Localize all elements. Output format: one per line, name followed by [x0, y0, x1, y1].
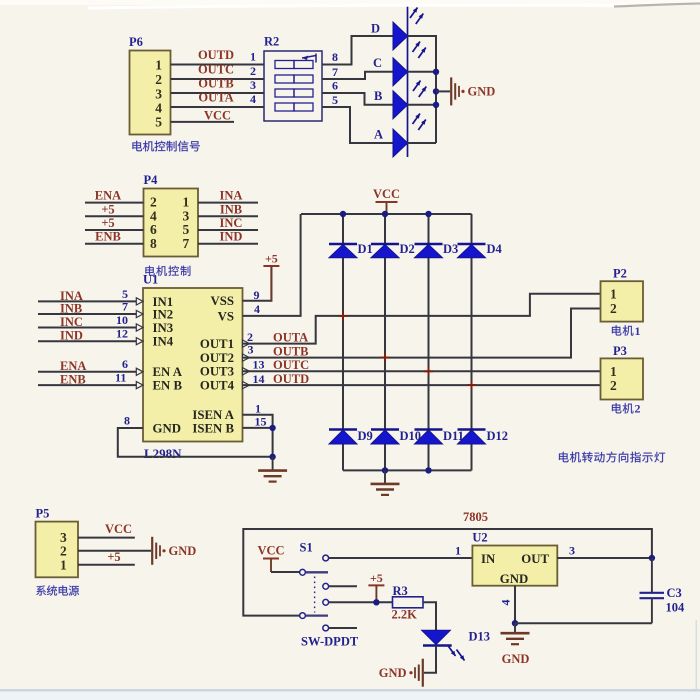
- svg-text:+5: +5: [265, 252, 278, 266]
- svg-text:3: 3: [569, 544, 575, 558]
- svg-text:15: 15: [255, 415, 267, 429]
- svg-text:R2: R2: [264, 35, 279, 49]
- net label OUTD: [198, 48, 234, 62]
- diode D11: [415, 429, 464, 444]
- label 系统电源 (system power): [36, 585, 79, 595]
- svg-text:GND: GND: [169, 544, 197, 558]
- svg-text:GND: GND: [153, 421, 181, 435]
- pin number 3 (R2 left): [250, 78, 256, 92]
- svg-text:ENA: ENA: [95, 189, 121, 203]
- svg-text:6: 6: [332, 79, 338, 93]
- svg-text:EN A: EN A: [153, 365, 183, 379]
- svg-text:7805: 7805: [463, 510, 488, 524]
- pin number 10: [116, 313, 128, 327]
- svg-text:2.2K: 2.2K: [392, 608, 418, 622]
- svg-text:OUTA: OUTA: [198, 91, 233, 105]
- svg-text:B: B: [374, 89, 382, 103]
- svg-text:1: 1: [635, 324, 641, 338]
- svg-text:7: 7: [122, 299, 128, 313]
- LED D: [371, 8, 423, 51]
- svg-text:OUTC: OUTC: [198, 63, 234, 77]
- LED D13: [422, 630, 490, 661]
- wire LED D cathode to bus: [408, 36, 437, 143]
- svg-text:+5: +5: [101, 216, 114, 230]
- svg-text:D3: D3: [443, 242, 458, 256]
- connector P2: [601, 267, 644, 322]
- pin number 1 (U2): [455, 544, 461, 558]
- svg-text:1: 1: [610, 287, 617, 302]
- page top highlight: [0, 0, 700, 8]
- junction (ISEN B): [269, 425, 275, 431]
- diode D9: [329, 429, 373, 444]
- wire OUT2 / net OUTB to P2-2: [243, 309, 601, 358]
- power ground GND (D13): [379, 659, 423, 687]
- power VCC (bridge): [373, 187, 400, 214]
- svg-text:D12: D12: [487, 429, 509, 443]
- pin number 8 (R2 right): [332, 50, 338, 64]
- pin number 6 (R2 right): [332, 79, 338, 93]
- diode D4: [458, 242, 503, 258]
- svg-text:S1: S1: [300, 541, 313, 555]
- svg-text:6: 6: [122, 357, 128, 371]
- LED C: [373, 42, 426, 86]
- svg-text:U1: U1: [143, 273, 158, 287]
- net label OUTD (U1): [273, 372, 309, 386]
- wire diode column 3: [428, 214, 430, 470]
- net label INC (P4): [220, 216, 243, 230]
- junction (rail/col2): [382, 211, 388, 217]
- label S1: [300, 541, 313, 555]
- svg-text:D13: D13: [469, 630, 491, 644]
- svg-text:GND: GND: [502, 652, 530, 666]
- wire P6-1 to R2-1: [171, 64, 265, 66]
- wire P6-4 to R2-4: [171, 106, 265, 108]
- wire throw1b stub: [329, 585, 357, 587]
- connector P3: [601, 344, 644, 400]
- svg-text:C: C: [373, 56, 382, 70]
- svg-text:4: 4: [250, 92, 256, 106]
- wire diode column 1: [342, 214, 344, 470]
- wire OUT1 / net OUTA to P2-1: [243, 294, 601, 344]
- svg-text:10: 10: [116, 313, 128, 327]
- diode D2: [371, 242, 415, 258]
- power +5 (VSS): [263, 252, 279, 301]
- wire ISEN B pin15: [243, 427, 273, 429]
- svg-text:VCC: VCC: [257, 544, 284, 558]
- svg-text:5: 5: [332, 93, 338, 107]
- input triangle IN1: [136, 298, 143, 305]
- svg-text:1: 1: [183, 194, 190, 209]
- svg-text:4: 4: [150, 208, 157, 223]
- net label OUTB: [198, 77, 233, 91]
- svg-text:OUTB: OUTB: [273, 344, 308, 358]
- wire ENA to P4-2: [85, 202, 144, 204]
- net label OUTA (U1): [273, 330, 308, 344]
- svg-text:2: 2: [610, 378, 617, 393]
- svg-text:VCC: VCC: [105, 522, 132, 536]
- svg-text:SW-DPDT: SW-DPDT: [301, 635, 359, 649]
- pin number 14: [253, 372, 265, 386]
- svg-text:VSS: VSS: [211, 294, 234, 308]
- wire feedback loop (OUT to switch pole2): [243, 529, 652, 616]
- svg-text:OUTB: OUTB: [198, 77, 233, 91]
- wire R3 to D13: [423, 602, 436, 630]
- pin number 1 (ISEN A): [255, 402, 261, 416]
- diode D10: [371, 429, 421, 444]
- net label ENA (P4): [95, 189, 121, 203]
- svg-text:INB: INB: [60, 301, 82, 315]
- svg-text:IN: IN: [481, 552, 496, 566]
- wire R2-5 to LED A: [322, 107, 393, 143]
- svg-text:P4: P4: [144, 173, 159, 187]
- svg-text:OUT2: OUT2: [200, 351, 234, 365]
- svg-text:A: A: [374, 128, 383, 142]
- pin number 1 (R2 left): [250, 50, 256, 64]
- svg-text:ENB: ENB: [95, 230, 121, 244]
- label 电机控制信号 (motor control signal): [132, 141, 199, 152]
- svg-text:3: 3: [250, 78, 256, 92]
- svg-text:OUTD: OUTD: [273, 372, 309, 386]
- svg-text:14: 14: [253, 372, 265, 386]
- wire P4-5 INC: [198, 229, 258, 231]
- net label ENB (P4): [95, 230, 121, 244]
- pin number 4: [254, 302, 260, 316]
- ground (U2): [501, 623, 530, 644]
- wire IND to IN4: [38, 340, 137, 342]
- net label OUTC (U1): [273, 358, 309, 372]
- svg-text:P5: P5: [36, 507, 50, 521]
- svg-text:4: 4: [499, 600, 513, 606]
- wire VS pin4 to VCC rail: [243, 214, 301, 316]
- wire throw2b stub: [329, 627, 357, 629]
- svg-text:R3: R3: [393, 584, 408, 598]
- connector P4: [144, 173, 199, 257]
- wire throw2a to R3: [329, 601, 393, 603]
- pin number 13: [253, 358, 265, 372]
- svg-text:OUTC: OUTC: [273, 358, 309, 372]
- svg-text:8: 8: [124, 413, 130, 427]
- diode D12: [458, 429, 509, 444]
- wire OUT3 / net OUTC to P3-1: [243, 370, 601, 372]
- label 电机2 (motor 2): [612, 402, 641, 416]
- svg-text:INB: INB: [220, 202, 242, 216]
- wire LED B cathode to bus: [408, 104, 437, 106]
- net label VCC (P6 pin5): [204, 109, 231, 123]
- net label IND (U1): [60, 329, 83, 343]
- svg-text:D9: D9: [358, 429, 373, 443]
- junction cross (col4/OUTD): [467, 381, 476, 390]
- junction cross (col2/OUTB): [381, 353, 390, 362]
- svg-text:VCC: VCC: [204, 109, 231, 123]
- IC U2 7805: [472, 531, 557, 586]
- wire INB to IN2: [38, 313, 137, 315]
- svg-text:3: 3: [248, 343, 254, 357]
- wire VSS pin9 to +5: [243, 266, 272, 301]
- svg-text:3: 3: [155, 87, 162, 102]
- svg-text:ISEN A: ISEN A: [192, 408, 234, 422]
- svg-text:IND: IND: [220, 230, 243, 244]
- junction (bus / GND wire): [433, 88, 439, 94]
- svg-text:P3: P3: [613, 344, 627, 358]
- pin number 4 (R2 left): [250, 92, 256, 106]
- wire +5 to P4-4: [85, 215, 144, 217]
- pin number 7: [122, 299, 128, 313]
- wire U2 OUT pin3: [557, 557, 652, 559]
- junction cross (col1/OUTA): [339, 312, 348, 321]
- wire bottom (pin4 to C3): [515, 622, 652, 624]
- junction cross (col3/OUTC): [424, 367, 433, 376]
- net label INC (U1): [60, 315, 83, 329]
- pin number 11: [115, 371, 126, 385]
- wire OUT4 / net OUTD to P3-2: [243, 384, 601, 386]
- wire bus to GND: [436, 90, 450, 92]
- LED B: [374, 81, 426, 119]
- page bottom strip: [0, 620, 700, 700]
- svg-text:1: 1: [610, 364, 617, 379]
- net label INB (U1): [60, 301, 82, 315]
- LED cathode line (shared vertical): [407, 6, 409, 157]
- input triangle IN4: [136, 338, 143, 345]
- resistor R3: [392, 584, 424, 622]
- svg-text:8: 8: [150, 236, 157, 251]
- label 7805: [463, 510, 488, 524]
- svg-text:IN3: IN3: [153, 321, 174, 335]
- svg-text:2: 2: [150, 194, 157, 209]
- svg-text:OUT3: OUT3: [200, 365, 234, 379]
- wire throw1a to U2 IN: [329, 557, 473, 559]
- svg-text:2: 2: [155, 72, 162, 87]
- wire P5-1 +5: [78, 564, 135, 566]
- svg-text:D2: D2: [400, 242, 415, 256]
- wire diode column 4: [471, 214, 473, 470]
- svg-text:13: 13: [253, 358, 265, 372]
- label L298N: [144, 446, 182, 461]
- junction (bus / LED C): [433, 69, 439, 75]
- pin number 2 (R2 left): [250, 64, 256, 78]
- net label OUTB (U1): [273, 344, 308, 358]
- switch S1 SW-DPDT: [300, 555, 329, 631]
- net label ENB (U1): [60, 373, 86, 387]
- junction (+5/R3 wire): [373, 599, 379, 605]
- svg-text:+5: +5: [370, 571, 383, 585]
- svg-text:+5: +5: [107, 550, 120, 564]
- pin number 9: [254, 288, 260, 302]
- wire P4-7 IND: [198, 243, 258, 245]
- junction (rail/col3): [425, 211, 431, 217]
- pin number 2: [247, 330, 253, 344]
- junction (GND pin4/bottom wire): [512, 620, 518, 626]
- connector P6: [129, 35, 171, 135]
- wire R2-8 to LED D: [322, 36, 393, 65]
- svg-text:ENB: ENB: [60, 373, 86, 387]
- wire P5-2 to GND: [78, 550, 151, 552]
- svg-text:IN4: IN4: [153, 335, 174, 349]
- svg-text:5: 5: [155, 115, 162, 130]
- svg-text:OUTD: OUTD: [198, 48, 234, 62]
- wire GND pin8: [118, 428, 273, 457]
- svg-text:2: 2: [635, 402, 641, 416]
- svg-text:VCC: VCC: [373, 187, 400, 201]
- svg-text:1: 1: [255, 402, 261, 416]
- svg-text:GND: GND: [500, 572, 528, 586]
- svg-text:C3: C3: [667, 586, 682, 600]
- pin number 7 (R2 right): [332, 65, 338, 79]
- resistor network R2: [264, 35, 322, 122]
- svg-text:11: 11: [115, 371, 126, 385]
- wire LED C cathode to bus: [408, 71, 437, 73]
- pin number 12: [116, 327, 128, 341]
- wire P4-1 INA: [198, 202, 258, 204]
- svg-text:2: 2: [250, 64, 256, 78]
- wire LED A cathode to bus: [408, 142, 437, 144]
- svg-text:INC: INC: [60, 315, 83, 329]
- wire +5 to P4-6: [85, 229, 144, 231]
- svg-text:8: 8: [332, 50, 338, 64]
- output triangle OUT1: [243, 340, 250, 347]
- svg-text:OUTA: OUTA: [273, 330, 308, 344]
- svg-text:2: 2: [60, 543, 67, 558]
- svg-text:D: D: [371, 22, 380, 36]
- wire VCC to switch pole1: [271, 571, 299, 573]
- net label +5 (P4-4): [101, 202, 114, 216]
- net label IND (P4): [220, 230, 243, 244]
- svg-text:+5: +5: [101, 202, 114, 216]
- net label GND (U2): [502, 652, 530, 666]
- net label ENA (U1): [60, 359, 86, 373]
- input triangle EN B: [136, 382, 143, 389]
- net label INB (P4): [220, 202, 242, 216]
- wire P5-3 VCC: [78, 537, 135, 539]
- svg-text:4: 4: [155, 101, 162, 116]
- svg-text:1: 1: [155, 57, 162, 72]
- wire INC to IN3: [38, 327, 137, 329]
- junction (bottom rail/col2): [382, 467, 388, 473]
- input triangle IN2: [136, 310, 143, 317]
- pin number 15 (ISEN B): [255, 415, 267, 429]
- power ground GND (LED bus): [451, 77, 495, 105]
- input triangle IN3: [136, 324, 143, 331]
- svg-text:OUT: OUT: [521, 552, 549, 566]
- svg-text:L298N: L298N: [144, 446, 182, 461]
- svg-text:EN B: EN B: [153, 379, 183, 393]
- wire diode column 2: [384, 214, 386, 470]
- net label VCC (P5): [105, 522, 132, 536]
- pin number 5 (R2 right): [332, 93, 338, 107]
- junction (bottom rail/col3): [425, 467, 431, 473]
- svg-text:4: 4: [254, 302, 260, 316]
- svg-text:1: 1: [455, 544, 461, 558]
- net label +5 (P5): [107, 550, 120, 564]
- junction (ISEN A/GND wire): [269, 454, 275, 460]
- power ground GND (P5): [152, 537, 196, 565]
- wire P6-2 to R2-2: [171, 78, 265, 80]
- net label OUTC: [198, 63, 234, 77]
- svg-text:INC: INC: [220, 216, 243, 230]
- svg-text:D4: D4: [487, 242, 503, 256]
- wire INA to IN1: [38, 300, 137, 302]
- pin number 8: [124, 413, 130, 427]
- svg-text:9: 9: [254, 288, 260, 302]
- svg-text:7: 7: [332, 65, 338, 79]
- junction (rail/col1): [340, 211, 346, 217]
- power +5 (R3): [368, 571, 384, 602]
- pin number 6: [122, 357, 128, 371]
- wire VCC top rail: [301, 213, 472, 215]
- ground (U1 sense): [258, 457, 287, 482]
- svg-text:P2: P2: [613, 267, 627, 281]
- wire ENB to EN B: [38, 384, 137, 386]
- svg-text:U2: U2: [472, 531, 487, 545]
- svg-text:GND: GND: [379, 666, 407, 680]
- LED A: [374, 114, 426, 158]
- svg-text:IND: IND: [60, 329, 83, 343]
- label 电机控制 (motor control): [145, 266, 190, 276]
- power VCC (switch): [257, 544, 284, 573]
- diode D3: [415, 242, 459, 258]
- svg-text:3: 3: [183, 208, 190, 223]
- pin number 3: [248, 343, 254, 357]
- svg-text:1: 1: [60, 557, 67, 572]
- IC U1 L298N: [143, 273, 243, 442]
- output triangle OUT2: [243, 354, 250, 361]
- svg-text:OUT1: OUT1: [200, 337, 234, 351]
- wire P6-5 VCC stub: [171, 121, 235, 123]
- connector P5: [36, 507, 79, 578]
- label 电机1 (motor 1): [612, 324, 641, 338]
- svg-text:OUT4: OUT4: [200, 379, 235, 393]
- svg-text:INA: INA: [220, 189, 243, 203]
- net label +5 (P4-6): [101, 216, 114, 230]
- pin number 4 (U2, rotated): [499, 600, 513, 606]
- svg-text:104: 104: [666, 601, 686, 615]
- wire bottom rail: [343, 469, 472, 471]
- svg-text:GND: GND: [468, 85, 496, 99]
- svg-text:ENA: ENA: [60, 359, 86, 373]
- svg-text:2: 2: [610, 301, 617, 316]
- svg-text:ISEN B: ISEN B: [192, 421, 234, 435]
- svg-text:IN2: IN2: [153, 307, 174, 321]
- svg-text:1: 1: [250, 50, 256, 64]
- wire P6-3 to R2-3: [171, 92, 265, 94]
- svg-text:12: 12: [116, 327, 128, 341]
- input triangle EN A: [136, 368, 143, 375]
- pin number 3 (U2): [569, 544, 575, 558]
- wire P4-3 INB: [198, 215, 258, 217]
- label 电机转动方向指示灯 (motor direction indicator): [559, 452, 665, 463]
- net label INA (P4): [220, 189, 243, 203]
- pin number 5: [122, 287, 128, 301]
- wire ENA to EN A: [38, 371, 137, 373]
- wire ISEN A pin1: [243, 415, 273, 457]
- svg-text:P6: P6: [129, 35, 143, 49]
- wire D13 cathode to GND: [424, 646, 436, 673]
- svg-text:D1: D1: [358, 242, 373, 256]
- junction (OUT/C3): [649, 555, 655, 561]
- net label OUTA: [198, 91, 233, 105]
- wire ENB to P4-8: [85, 243, 144, 245]
- output triangle OUT4: [243, 382, 250, 389]
- wire R2-7 to LED C: [322, 72, 393, 79]
- label SW-DPDT: [301, 635, 359, 649]
- junction (bus / LED B): [433, 102, 439, 108]
- output triangle OUT3: [243, 368, 250, 375]
- wire U2 GND pin4: [514, 586, 516, 624]
- svg-text:VS: VS: [218, 309, 234, 323]
- wire R2-6 to LED B: [322, 93, 393, 105]
- capacitor C3: [640, 558, 686, 623]
- svg-text:7: 7: [183, 236, 190, 251]
- diode D1: [329, 242, 373, 258]
